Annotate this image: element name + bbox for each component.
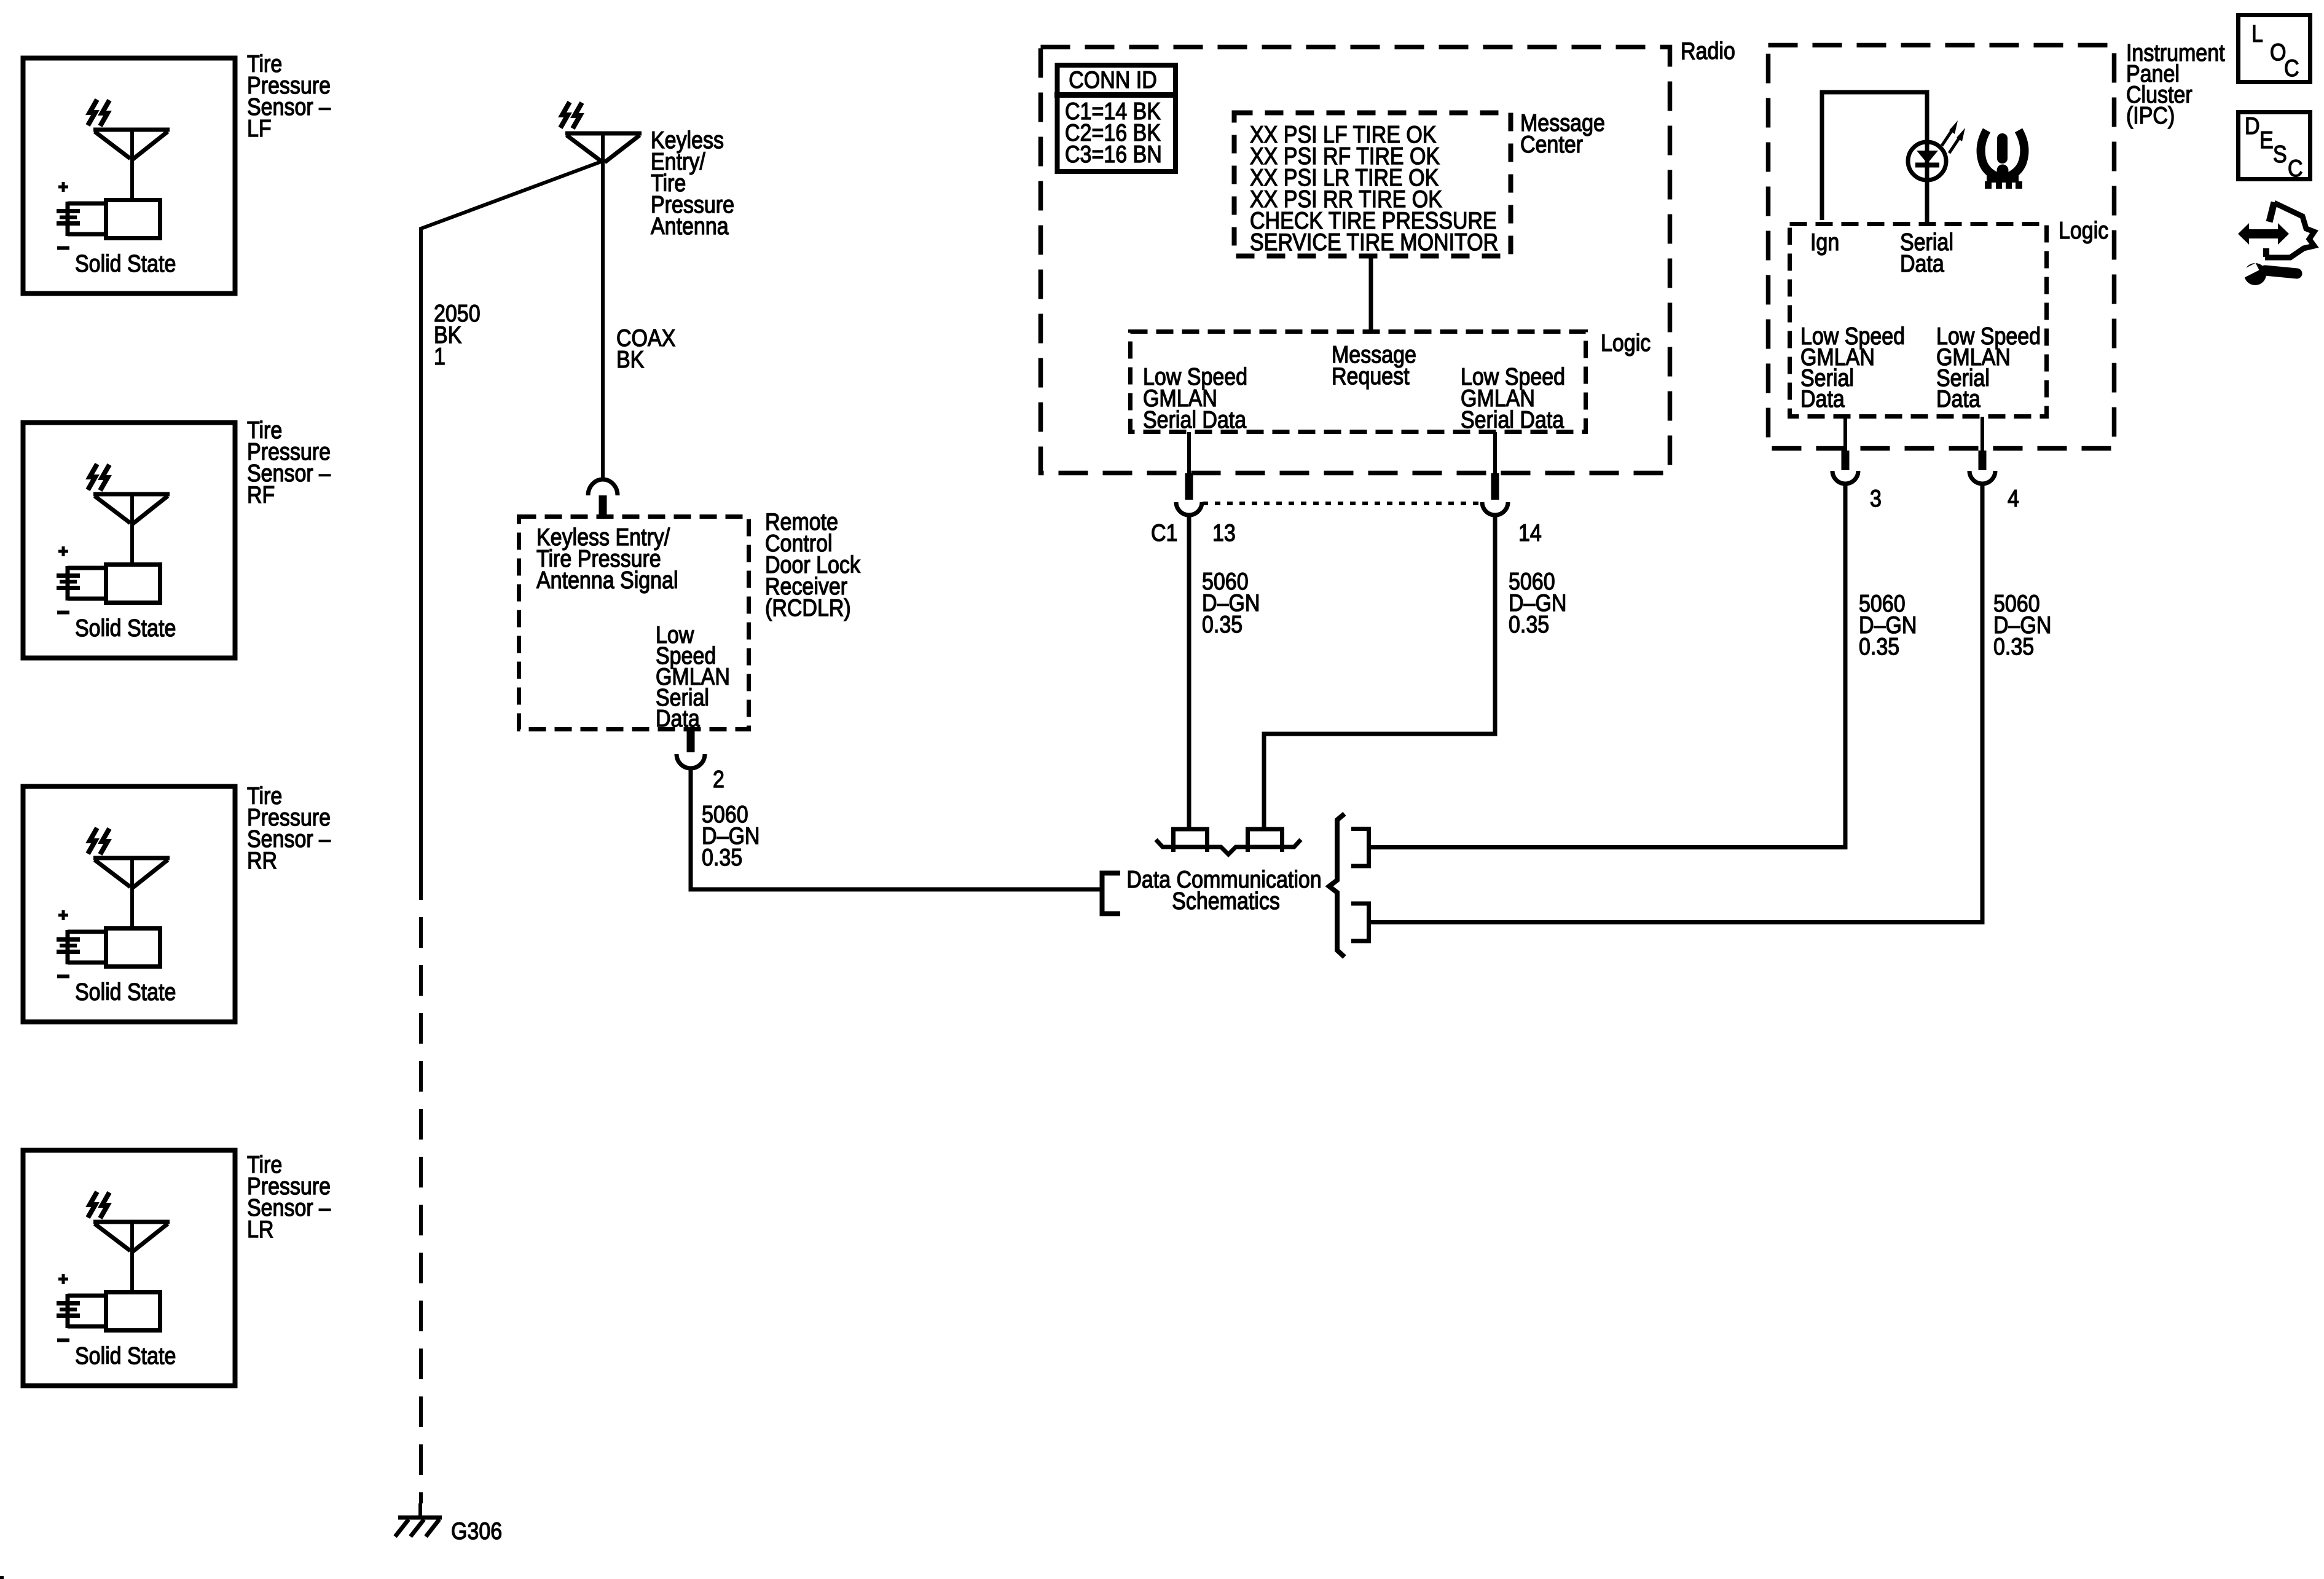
icon outline shape — [2269, 202, 2274, 222]
ground strokes — [395, 1519, 409, 1537]
svg-text:3: 3 — [1870, 485, 1882, 512]
svg-text:Data: Data — [1800, 385, 1845, 412]
wire pin 3 to brace — [1371, 484, 1845, 848]
tab to pin 3 wire — [1351, 829, 1369, 867]
svg-text:RR: RR — [247, 847, 277, 874]
data link icon — [2238, 202, 2314, 285]
wire pin 13 to splice — [1187, 515, 1191, 827]
radio logic dashed box — [1131, 332, 1586, 432]
wire 5060 from pin 2 — [691, 767, 1100, 889]
coax connector socket — [588, 479, 618, 495]
DESC box — [2239, 112, 2310, 179]
RADIO — [1041, 37, 1735, 827]
svg-text:E: E — [2259, 127, 2274, 154]
LED emission arrows — [1942, 129, 1953, 146]
pin 4 connector pin — [1979, 451, 1987, 470]
ign wire loop — [1822, 92, 1927, 220]
LOC box — [2239, 15, 2310, 82]
pin 14 connector socket — [1482, 502, 1508, 515]
pin 14 wire inside radio — [1493, 432, 1497, 475]
coax connector pin — [599, 495, 607, 514]
svg-text:S: S — [2273, 141, 2287, 168]
svg-text:Logic: Logic — [1601, 329, 1651, 356]
keyless antenna symbol — [565, 132, 642, 136]
splice tab 14 — [1248, 829, 1282, 852]
pin 13 connector pin — [1185, 473, 1193, 500]
icon wrench — [2244, 263, 2266, 285]
pin 3 wire inside IPC — [1843, 417, 1847, 451]
svg-text:C: C — [2284, 55, 2299, 82]
GROUND — [0, 1503, 502, 1579]
svg-text:Data: Data — [1936, 385, 1981, 412]
label keyless antenna — [434, 127, 734, 373]
svg-text:13: 13 — [1212, 519, 1236, 546]
svg-text:Data: Data — [1900, 250, 1944, 277]
svg-text:Solid State: Solid State — [75, 250, 176, 277]
LED indicator circle — [1908, 142, 1946, 180]
svg-text:0.35: 0.35 — [1509, 611, 1549, 638]
svg-text:Radio: Radio — [1681, 37, 1735, 65]
svg-text:0.35: 0.35 — [1859, 633, 1899, 660]
svg-text:Serial Data: Serial Data — [1461, 406, 1564, 433]
message center dashed box — [1235, 113, 1511, 256]
SIDEBAR — [2238, 15, 2314, 286]
wire pin 4 to brace — [1371, 484, 1982, 923]
svg-text:4: 4 — [2008, 485, 2019, 512]
icon double arrow — [2238, 223, 2289, 245]
svg-text:Antenna: Antenna — [651, 213, 729, 240]
pin 4 connector socket — [1969, 471, 1995, 484]
pin 14 connector pin — [1491, 473, 1499, 500]
svg-text:C1: C1 — [1151, 519, 1177, 546]
wire 2050 BK to ground — [421, 161, 603, 869]
brace to IPC wires — [1329, 814, 1345, 957]
svg-text:C: C — [2288, 155, 2303, 182]
svg-text:14: 14 — [1518, 519, 1542, 546]
bracket to data communication schematics — [1102, 873, 1121, 914]
IPC — [1371, 39, 2225, 923]
DCS — [1102, 814, 1369, 957]
LED cathode bar — [1915, 163, 1939, 168]
radio dashed box — [1041, 47, 1670, 473]
svg-text:Solid State: Solid State — [75, 1342, 176, 1369]
svg-text:Solid State: Solid State — [75, 979, 176, 1006]
ground stub — [418, 1503, 422, 1518]
tire pressure sensor LR box — [23, 1151, 235, 1386]
svg-text:RF: RF — [247, 481, 275, 508]
conn id table — [1058, 65, 1176, 171]
tire pressure sensor RR box — [23, 787, 235, 1022]
coax wire — [601, 133, 605, 479]
pin 13 connector socket — [1176, 502, 1202, 515]
pin 2 connector pin — [687, 731, 695, 752]
TPMS warning icon — [1981, 130, 2025, 189]
tab to pin 4 wire — [1351, 904, 1369, 941]
svg-text:L: L — [2251, 20, 2263, 47]
pin 2 connector socket — [677, 754, 705, 768]
ANTENNA — [421, 102, 734, 1503]
svg-text:(RCDLR): (RCDLR) — [765, 594, 851, 621]
wire pin 14 to splice — [1264, 515, 1495, 827]
LED stem to logic — [1925, 180, 1929, 222]
IPC logic dashed box — [1790, 224, 2047, 417]
svg-text:LF: LF — [247, 115, 272, 142]
ground bar — [398, 1516, 442, 1520]
connector C1 dotted boundary — [1203, 502, 1482, 505]
svg-text:CONN ID: CONN ID — [1069, 66, 1157, 93]
keyless antenna RF waves — [560, 102, 570, 128]
IPC dashed box — [1769, 45, 2114, 449]
svg-text:Request: Request — [1332, 363, 1410, 390]
svg-text:Logic: Logic — [2059, 217, 2108, 244]
svg-text:D: D — [2245, 112, 2260, 140]
svg-text:SERVICE TIRE MONITOR: SERVICE TIRE MONITOR — [1250, 229, 1498, 256]
RCDLR — [519, 508, 1101, 889]
pin 4 wire inside IPC — [1981, 417, 1984, 451]
svg-text:G306: G306 — [451, 1518, 502, 1545]
svg-text:Schematics: Schematics — [1172, 888, 1280, 915]
pin 13 wire inside radio — [1187, 432, 1191, 475]
LED wire through — [1925, 140, 1929, 182]
svg-text:BK: BK — [616, 346, 645, 373]
svg-text:0.35: 0.35 — [1202, 611, 1242, 638]
splice tab 13 — [1174, 829, 1207, 852]
svg-text:Data: Data — [656, 705, 700, 732]
svg-text:Serial Data: Serial Data — [1143, 406, 1247, 433]
svg-text:Antenna Signal: Antenna Signal — [536, 567, 678, 594]
pin 3 connector socket — [1832, 471, 1858, 484]
pin 3 connector pin — [1842, 451, 1850, 470]
page corner mark — [0, 1576, 4, 1579]
svg-text:1: 1 — [434, 343, 446, 370]
svg-text:C3=16 BN: C3=16 BN — [1065, 141, 1162, 168]
tire pressure sensor RF box — [23, 423, 235, 658]
LED diode triangle — [1917, 151, 1938, 163]
svg-text:LR: LR — [247, 1216, 273, 1243]
wire message center to logic — [1369, 257, 1373, 332]
SENSORS — [23, 50, 331, 1386]
RCDLR dashed box — [519, 517, 749, 730]
svg-text:Ign: Ign — [1810, 229, 1839, 256]
svg-text:(IPC): (IPC) — [2126, 102, 2175, 129]
svg-text:Solid State: Solid State — [75, 615, 176, 642]
svg-text:0.35: 0.35 — [702, 844, 742, 871]
tire pressure sensor LF box — [23, 58, 235, 294]
svg-text:2: 2 — [713, 766, 724, 793]
svg-text:0.35: 0.35 — [1993, 633, 2034, 660]
brace under splice tabs — [1156, 840, 1301, 854]
svg-text:Center: Center — [1520, 131, 1583, 158]
